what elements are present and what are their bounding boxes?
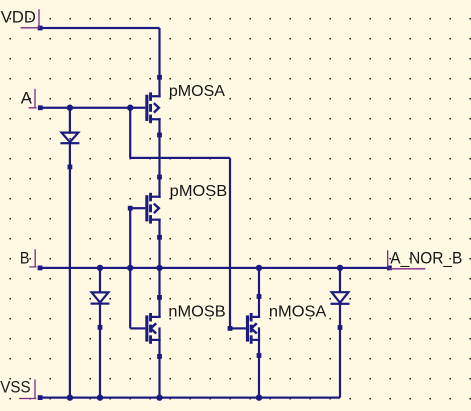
- wire vertex above nMOSA drain: [257, 294, 262, 299]
- wire vertex pMOSB gate pin end: [128, 206, 133, 211]
- wire vertex above pMOSA source: [157, 75, 162, 80]
- wire vertex B wire start: [38, 266, 43, 271]
- svg-text:nMOSB: nMOSB: [168, 304, 225, 321]
- wire diode D3 anode from output: [339, 268, 341, 293]
- wire output/B horizontal: [40, 267, 390, 269]
- wire A branch horizontal: [130, 157, 230, 159]
- wire vertex below diode D1: [68, 165, 73, 170]
- junction B / gate branch: [127, 265, 133, 271]
- wire diode D2 cathode down to VSS: [99, 303, 101, 398]
- svg-text:A: A: [21, 88, 33, 107]
- wire pMOSB drain to output: [158, 219, 160, 268]
- transistor nMOSB: [145, 313, 160, 344]
- wire nMOSB drain up to output: [158, 268, 160, 318]
- wire pMOSB gate branch down: [129, 208, 131, 268]
- label anchor B: [29, 249, 36, 267]
- wire vertex VDD wire start: [38, 26, 43, 31]
- wire nMOSA drain up to output: [258, 268, 260, 318]
- diode D2: [91, 292, 110, 304]
- junction A / pMOSA gate branch: [127, 105, 133, 111]
- diode D1: [60, 133, 79, 145]
- diode D3: [331, 292, 350, 305]
- junction VSS / diode D2: [97, 394, 103, 400]
- wire A branch down to nMOSA gate: [229, 158, 231, 329]
- label anchor A: [29, 89, 37, 108]
- wire diode D1 anode: [69, 108, 71, 134]
- svg-text:VDD: VDD: [1, 8, 36, 27]
- transistor nMOSA: [246, 313, 260, 344]
- wire VDD horizontal: [40, 27, 160, 29]
- svg-text:B: B: [20, 249, 30, 268]
- wire pMOSB gate pin: [130, 207, 145, 209]
- junction VSS / nMOSA source: [256, 394, 262, 400]
- wire diode D2 anode from B: [99, 268, 101, 294]
- wire nMOSB gate branch down: [129, 268, 131, 329]
- svg-text:nMOSA: nMOSA: [269, 304, 327, 321]
- wire diode D1 cathode down to VSS: [69, 142, 71, 398]
- junction VSS / diode D1: [67, 394, 73, 400]
- wire A branch down: [129, 108, 131, 158]
- transistor pMOSA: [145, 92, 160, 123]
- wire nMOSB source down to VSS: [158, 339, 160, 398]
- wire vertex below pMOSA drain: [157, 133, 162, 138]
- label anchor A_NOR_B: [388, 250, 426, 268]
- label anchor VSS: [19, 380, 36, 399]
- wire VSS horizontal: [40, 397, 340, 399]
- junction output / nMOSA drain: [256, 265, 262, 271]
- wire vertex below nMOSA source: [257, 353, 262, 358]
- wire vertex below diode D3: [338, 325, 343, 330]
- wire vertex above nMOSB drain: [157, 295, 162, 300]
- wire nMOSB gate pin: [130, 327, 145, 329]
- svg-text:A_NOR_B: A_NOR_B: [390, 248, 462, 267]
- junction output / pMOSB-nMOSB drains: [156, 265, 162, 271]
- wire diode D3 cathode down to VSS: [339, 303, 341, 398]
- wire nMOSA gate pin: [230, 327, 246, 329]
- svg-text:pMOSB: pMOSB: [170, 183, 228, 200]
- junction output / diode D3: [337, 265, 343, 271]
- wire VDD down to pMOSA source: [158, 28, 160, 97]
- wire vertex above pMOSB source: [157, 175, 162, 180]
- wire pMOSA drain to pMOSB source: [158, 118, 160, 198]
- transistor pMOSB: [145, 193, 160, 224]
- wire vertex A wire start: [38, 105, 43, 110]
- svg-text:pMOSA: pMOSA: [169, 83, 225, 100]
- wire vertex nMOSA gate pin end: [228, 326, 233, 331]
- wire net A horizontal: [40, 107, 145, 109]
- wire vertex A_NOR_B wire end: [387, 266, 392, 271]
- wire vertex VSS wire start: [38, 395, 43, 400]
- svg-text:VSS: VSS: [0, 378, 30, 397]
- junction B / diode D2: [97, 265, 103, 271]
- wire nMOSA source down to VSS: [258, 339, 260, 398]
- wire vertex below diode D2: [98, 325, 103, 330]
- wire vertex below nMOSB source: [157, 354, 162, 359]
- junction A / diode D1: [67, 105, 73, 111]
- label anchor VDD: [21, 9, 41, 28]
- junction VSS / nMOSB source: [156, 394, 162, 400]
- wire vertex below pMOSB drain: [157, 235, 162, 240]
